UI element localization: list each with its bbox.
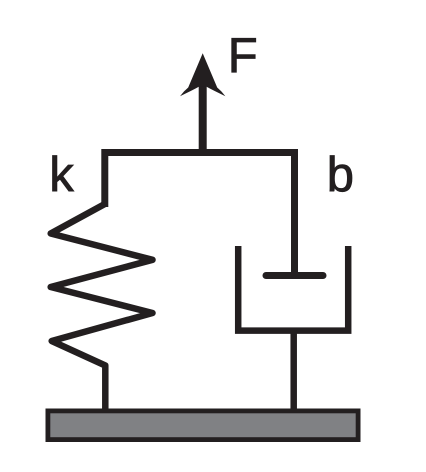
top bar with left and right drops (wire) — [105, 153, 295, 277]
damper b: rod below cup — [290, 330, 297, 412]
spring k (zigzag) — [51, 204, 153, 412]
ground block (border) — [46, 409, 361, 443]
force arrow F (head) — [180, 53, 225, 96]
damper b: piston plate — [266, 272, 323, 279]
damper b: cylinder cup — [238, 246, 348, 331]
svg-text:F: F — [228, 29, 258, 83]
svg-text:k: k — [49, 148, 74, 202]
ground block (gray fill) — [50, 413, 355, 437]
svg-text:b: b — [327, 148, 354, 202]
force arrow F (shaft) — [199, 85, 207, 152]
